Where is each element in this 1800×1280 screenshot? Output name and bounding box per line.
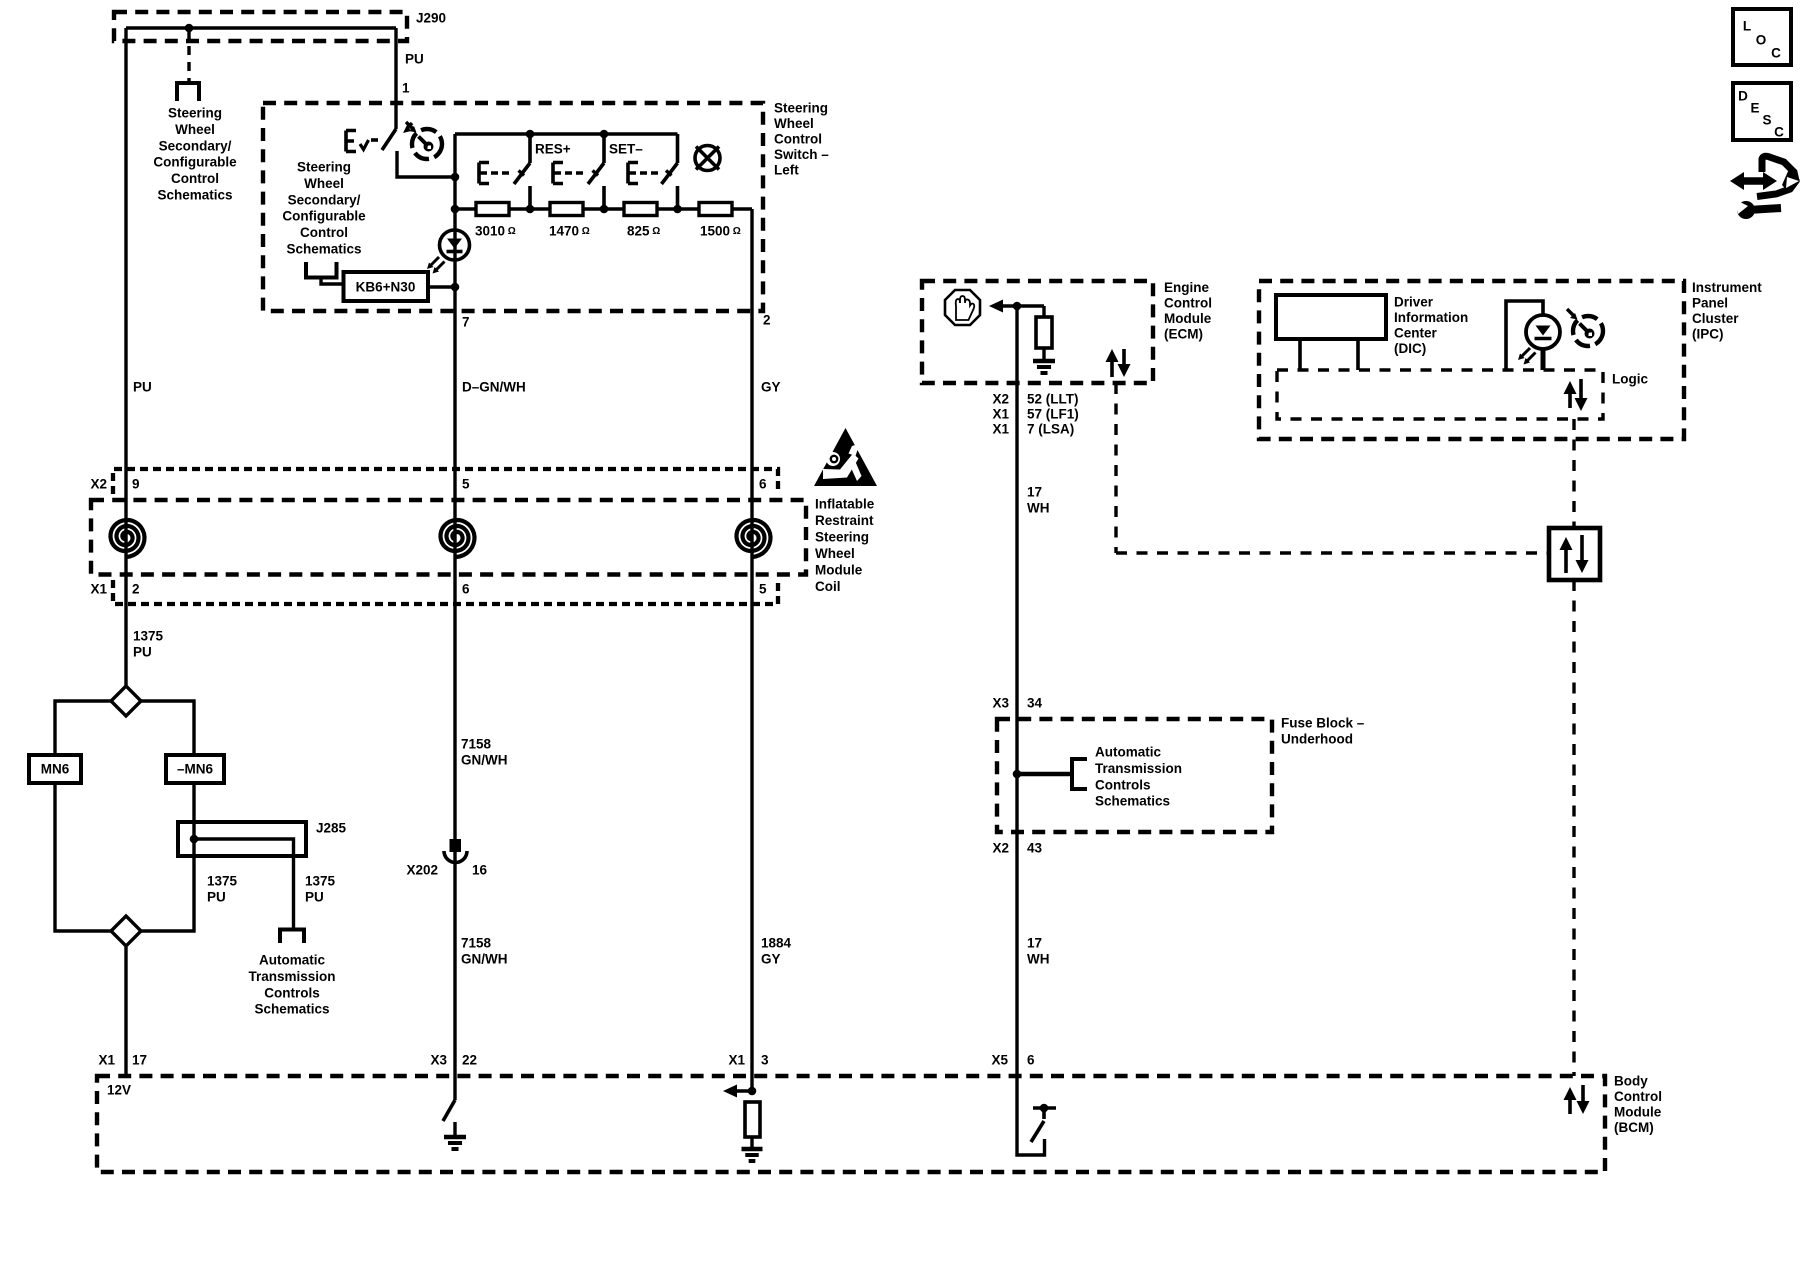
wire PU left drop from J290 to diamond: [124, 28, 127, 686]
svg-text:Controls: Controls: [264, 985, 320, 1000]
splice pack J290 dashed box: [114, 11, 446, 42]
label 1884 GY: [761, 936, 792, 967]
svg-text:12V: 12V: [107, 1083, 131, 1098]
svg-text:7158: 7158: [461, 936, 492, 951]
svg-text:Panel: Panel: [1692, 296, 1728, 311]
switch S3 SET-: [553, 134, 604, 209]
arrow (BCM X1-3): [723, 1085, 756, 1098]
wire GY right drop: [750, 209, 753, 1091]
header bracket (fuse block): [1072, 759, 1087, 789]
svg-text:Instrument: Instrument: [1692, 280, 1762, 295]
wire PU right drop from J290 into switch box: [394, 28, 397, 129]
svg-text:Control: Control: [1164, 296, 1212, 311]
svg-text:J285: J285: [316, 821, 347, 836]
labels X2 row pins: [90, 477, 767, 492]
wire to BCM X1-17: [124, 946, 127, 1076]
svg-text:43: 43: [1027, 841, 1043, 856]
label PU (right drop): [405, 52, 424, 67]
svg-text:Wheel: Wheel: [175, 122, 215, 137]
label 1375 PU (below coil): [133, 629, 164, 660]
svg-text:57 (LF1): 57 (LF1): [1027, 407, 1079, 422]
svg-text:(ECM): (ECM): [1164, 327, 1203, 342]
switch S4 cancel: [628, 134, 678, 209]
svg-text:X5: X5: [991, 1053, 1008, 1068]
svg-text:22: 22: [462, 1053, 477, 1068]
option box -MN6: [166, 755, 224, 783]
svg-text:Body: Body: [1614, 1074, 1648, 1089]
svg-text:GY: GY: [761, 380, 781, 395]
svg-text:Secondary/: Secondary/: [288, 192, 361, 207]
coil L1 (left): [111, 520, 145, 557]
diamond node top: [111, 686, 141, 716]
serial data arrows (BCM): [1564, 1085, 1590, 1114]
connector row X2 (dotted): [113, 469, 778, 494]
label 7158 GN/WH (upper): [461, 737, 508, 768]
switch (BCM X5-6): [1031, 1104, 1056, 1142]
svg-text:Schematics: Schematics: [254, 1002, 329, 1017]
svg-text:Left: Left: [774, 163, 799, 178]
svg-text:(BCM): (BCM): [1614, 1120, 1654, 1135]
svg-text:WH: WH: [1027, 952, 1050, 967]
label Logic: [1612, 372, 1648, 387]
wire J290 internal bus: [126, 26, 396, 29]
switch S2 RES+: [479, 134, 530, 209]
switch S1 cruise on/off (E v): [346, 123, 455, 177]
svg-text:17: 17: [1027, 485, 1042, 500]
DESC nav box: [1733, 83, 1791, 140]
labels X5 6: [991, 1053, 1035, 1068]
svg-text:Information: Information: [1394, 310, 1468, 325]
svg-text:6: 6: [1027, 1053, 1035, 1068]
label Instrument Panel Cluster (IPC): [1692, 280, 1762, 342]
harness nav icon (arrows + wrench): [1730, 156, 1800, 219]
svg-text:5: 5: [759, 582, 767, 597]
label RES+: [535, 142, 571, 157]
svg-text:PU: PU: [207, 890, 226, 905]
svg-text:3: 3: [761, 1053, 769, 1068]
svg-text:1884: 1884: [761, 936, 792, 951]
node: switch feed bus top: [455, 132, 678, 136]
inline connector J285: [178, 821, 347, 857]
svg-text:X202: X202: [406, 863, 438, 878]
svg-text:1: 1: [402, 81, 410, 96]
svg-text:3010 Ω: 3010 Ω: [475, 224, 516, 239]
gauge icon (cruise): [406, 122, 442, 159]
svg-text:X2: X2: [90, 477, 107, 492]
svg-text:X1: X1: [98, 1053, 115, 1068]
svg-text:GY: GY: [761, 952, 781, 967]
svg-text:17: 17: [1027, 936, 1042, 951]
header bracket (ATC left): [280, 930, 304, 944]
svg-text:Schematics: Schematics: [157, 188, 232, 203]
diamond node bottom: [111, 916, 141, 946]
labels X1 3 (right wire): [728, 1053, 769, 1068]
label Driver Information Center (DIC): [1394, 295, 1468, 357]
svg-text:(DIC): (DIC): [1394, 341, 1426, 356]
svg-text:Automatic: Automatic: [1095, 745, 1161, 760]
resistor R2 1470 ohm: [549, 203, 590, 239]
svg-text:Steering: Steering: [815, 530, 869, 545]
label Engine Control Module (ECM): [1164, 280, 1212, 342]
wire right branch (-MN6): [141, 701, 194, 931]
wire 17 WH main: [1017, 306, 1045, 1155]
resistor R4 1500 ohm: [699, 203, 741, 239]
option box MN6: [29, 755, 81, 783]
svg-text:Module: Module: [815, 563, 863, 578]
svg-text:X3: X3: [430, 1053, 447, 1068]
label Body Control Module (BCM): [1614, 1074, 1662, 1136]
svg-text:Underhood: Underhood: [1281, 732, 1353, 747]
Engine Control Module (ECM) dashed box: [922, 281, 1153, 383]
cancel icon (circle X): [695, 146, 720, 171]
wire branch to ATC schematics (fuse block): [1017, 772, 1072, 776]
svg-text:X1: X1: [992, 422, 1009, 437]
switch (BCM X3-22) to ground: [443, 1100, 455, 1121]
connector row X1 (dotted): [113, 580, 778, 604]
svg-text:Coil: Coil: [815, 579, 841, 594]
svg-text:6: 6: [759, 477, 767, 492]
ground (ECM): [1033, 361, 1055, 373]
svg-text:Wheel: Wheel: [304, 176, 344, 191]
label 7158 GN/WH (lower): [461, 936, 508, 967]
serial data dashed wire logic down: [1572, 419, 1575, 528]
svg-text:–MN6: –MN6: [177, 762, 214, 777]
svg-text:Secondary/: Secondary/: [159, 138, 232, 153]
svg-text:X2: X2: [992, 841, 1009, 856]
svg-text:9: 9: [132, 477, 140, 492]
svg-text:PU: PU: [133, 380, 152, 395]
labels X2 43: [992, 841, 1042, 856]
svg-text:MN6: MN6: [41, 762, 70, 777]
svg-text:Transmission: Transmission: [248, 969, 335, 984]
label GY: [761, 380, 781, 395]
svg-text:7 (LSA): 7 (LSA): [1027, 422, 1074, 437]
header bracket to Steering Wheel Secondary/Configurable Control Schematics: [177, 83, 199, 101]
svg-text:2: 2: [763, 313, 771, 328]
pin 1: [402, 81, 410, 96]
svg-text:Controls: Controls: [1095, 777, 1151, 792]
wire dashed stub to steering wheel schematics header: [187, 30, 190, 81]
svg-text:5: 5: [462, 477, 470, 492]
Fuse Block - Underhood dashed box: [997, 719, 1272, 832]
svg-text:1470 Ω: 1470 Ω: [549, 224, 590, 239]
Inflatable Restraint Steering Wheel Module Coil dashed box: [91, 500, 806, 575]
pin 2: [763, 313, 771, 328]
svg-text:Wheel: Wheel: [774, 116, 814, 131]
svg-text:Cluster: Cluster: [1692, 311, 1739, 326]
airbag warning triangle: [814, 428, 877, 486]
labels X3 22: [430, 1053, 477, 1068]
label Steering Wheel Secondary/Configurable Control Schematics (inner): [282, 160, 366, 257]
svg-text:Schematics: Schematics: [286, 242, 361, 257]
serial data dashed wire splice to BCM: [1572, 580, 1575, 1076]
Instrument Panel Cluster (IPC) dashed box: [1259, 281, 1684, 439]
svg-text:X3: X3: [992, 696, 1009, 711]
resistor R6 (BCM): [745, 1102, 760, 1137]
serial data dashed wire ECM to splice box: [1116, 551, 1549, 554]
labels ECM pins X2 52 (LLT) X1 57 (LF1) X1 7 (LSA): [992, 392, 1078, 437]
svg-text:Schematics: Schematics: [1095, 794, 1170, 809]
svg-text:Driver: Driver: [1394, 295, 1434, 310]
labels X1 row pins: [90, 582, 767, 597]
svg-text:Steering: Steering: [168, 106, 222, 121]
svg-text:Switch –: Switch –: [774, 147, 829, 162]
svg-text:Automatic: Automatic: [259, 953, 325, 968]
svg-text:17: 17: [132, 1053, 147, 1068]
label Automatic Transmission Controls Schematics (left): [248, 953, 335, 1017]
svg-text:D–GN/WH: D–GN/WH: [462, 380, 526, 395]
svg-text:J290: J290: [416, 11, 446, 26]
label D-GN/WH: [462, 380, 526, 395]
svg-text:Configurable: Configurable: [282, 209, 366, 224]
label Fuse Block - Underhood: [1281, 716, 1365, 747]
svg-text:PU: PU: [405, 52, 424, 67]
svg-text:C: C: [1774, 125, 1784, 140]
stop lamp octagon icon: [945, 290, 980, 325]
coil L3 (right): [737, 520, 771, 557]
junction on J290 bus: [185, 24, 194, 33]
header bracket KB6+N30: [306, 262, 344, 284]
svg-text:S: S: [1762, 113, 1771, 128]
junction dot in J285: [190, 835, 199, 844]
svg-text:Module: Module: [1164, 311, 1212, 326]
wire middle bus (D-GN/WH): [453, 134, 456, 1100]
svg-text:6: 6: [462, 582, 470, 597]
label Inflatable Restraint Steering Wheel Module Coil: [815, 497, 875, 595]
svg-text:X2: X2: [992, 392, 1009, 407]
svg-text:C: C: [1771, 46, 1781, 61]
svg-text:Engine: Engine: [1164, 280, 1209, 295]
label 17 WH (lower): [1027, 936, 1050, 967]
label 17 WH (upper): [1027, 485, 1050, 516]
svg-text:Control: Control: [774, 132, 822, 147]
LED indicator in switch: [427, 230, 470, 274]
serial data splice box with arrows: [1549, 528, 1600, 580]
svg-text:Logic: Logic: [1612, 372, 1648, 387]
label 1375 PU (right of J285 drop): [305, 874, 336, 905]
svg-text:X1: X1: [728, 1053, 745, 1068]
svg-text:Inflatable: Inflatable: [815, 497, 875, 512]
svg-text:GN/WH: GN/WH: [461, 952, 508, 967]
LOC nav box: [1733, 9, 1791, 65]
svg-text:1375: 1375: [207, 874, 238, 889]
junction dot fuse block: [1013, 770, 1022, 779]
svg-text:Steering: Steering: [297, 160, 351, 175]
indicator LED (IPC): [1506, 301, 1560, 370]
gauge icon (IPC): [1567, 309, 1603, 346]
resistor bus: [455, 207, 752, 210]
svg-text:Control: Control: [300, 225, 348, 240]
serial data arrows (logic): [1564, 379, 1588, 411]
svg-text:RES+: RES+: [535, 142, 571, 157]
svg-text:16: 16: [472, 863, 488, 878]
svg-text:GN/WH: GN/WH: [461, 753, 508, 768]
svg-text:PU: PU: [305, 890, 324, 905]
svg-text:O: O: [1756, 33, 1767, 48]
svg-text:PU: PU: [133, 645, 152, 660]
coil L2 (middle): [441, 520, 475, 557]
label Steering Wheel Secondary/Configurable Control Schematics (left): [153, 106, 237, 203]
svg-text:Fuse Block –: Fuse Block –: [1281, 716, 1365, 731]
svg-text:Module: Module: [1614, 1105, 1662, 1120]
svg-text:7158: 7158: [461, 737, 492, 752]
label 1375 PU (left of J285 drop): [207, 874, 238, 905]
svg-text:2: 2: [132, 582, 140, 597]
svg-text:1500 Ω: 1500 Ω: [700, 224, 741, 239]
svg-text:Configurable: Configurable: [153, 155, 237, 170]
resistor R3 825 ohm: [624, 203, 660, 239]
wire J285 branch to ATC schematics: [194, 839, 294, 929]
svg-text:52 (LLT): 52 (LLT): [1027, 392, 1079, 407]
svg-text:X1: X1: [992, 407, 1009, 422]
logic dashed box: [1277, 370, 1603, 419]
ground (BCM right): [742, 1137, 763, 1161]
svg-text:KB6+N30: KB6+N30: [356, 280, 416, 295]
svg-text:D: D: [1738, 89, 1748, 104]
svg-text:Steering: Steering: [774, 101, 828, 116]
inline connector X202 pin 16: [406, 839, 487, 878]
svg-text:X1: X1: [90, 582, 107, 597]
svg-text:SET–: SET–: [609, 142, 643, 157]
svg-text:(IPC): (IPC): [1692, 327, 1724, 342]
svg-text:Control: Control: [1614, 1089, 1662, 1104]
svg-text:Wheel: Wheel: [815, 546, 855, 561]
pin 7: [462, 315, 470, 330]
label Automatic Transmission Controls Schematics (fuse block): [1095, 745, 1182, 809]
Body Control Module (BCM) dashed box: [97, 1076, 1605, 1172]
junction dots on feed bus: [526, 130, 609, 139]
svg-text:WH: WH: [1027, 501, 1050, 516]
serial data dashed wire ECM down: [1114, 383, 1117, 553]
svg-text:825 Ω: 825 Ω: [627, 224, 660, 239]
svg-text:1375: 1375: [305, 874, 336, 889]
svg-text:1375: 1375: [133, 629, 164, 644]
svg-text:Center: Center: [1394, 326, 1438, 341]
Steering Wheel Control Switch - Left dashed box: [263, 103, 763, 311]
serial data arrows (ECM): [1106, 349, 1131, 377]
resistor R5 (ECM pullup): [1036, 306, 1052, 361]
label Steering Wheel Control Switch - Left: [774, 101, 829, 178]
svg-text:E: E: [1750, 101, 1759, 116]
svg-text:Control: Control: [171, 171, 219, 186]
arrow into octagon: [989, 300, 1044, 313]
svg-text:34: 34: [1027, 696, 1043, 711]
svg-text:7: 7: [462, 315, 470, 330]
svg-text:L: L: [1743, 19, 1751, 34]
svg-text:Restraint: Restraint: [815, 513, 874, 528]
connector option box KB6+N30: [344, 272, 460, 301]
label PU (left wire): [133, 380, 152, 395]
junction dots on resistor bus: [451, 173, 682, 214]
svg-text:Transmission: Transmission: [1095, 761, 1182, 776]
label 12V: [107, 1083, 131, 1098]
resistor R1 3010 ohm: [475, 203, 516, 239]
wire left branch (MN6): [55, 701, 111, 931]
labels X3 34: [992, 696, 1042, 711]
junction dot ECM: [1013, 302, 1022, 311]
labels X1 17: [98, 1053, 147, 1068]
display DIC rectangle: [1276, 295, 1386, 370]
ground (BCM middle): [444, 1122, 466, 1149]
label SET-: [609, 142, 643, 157]
